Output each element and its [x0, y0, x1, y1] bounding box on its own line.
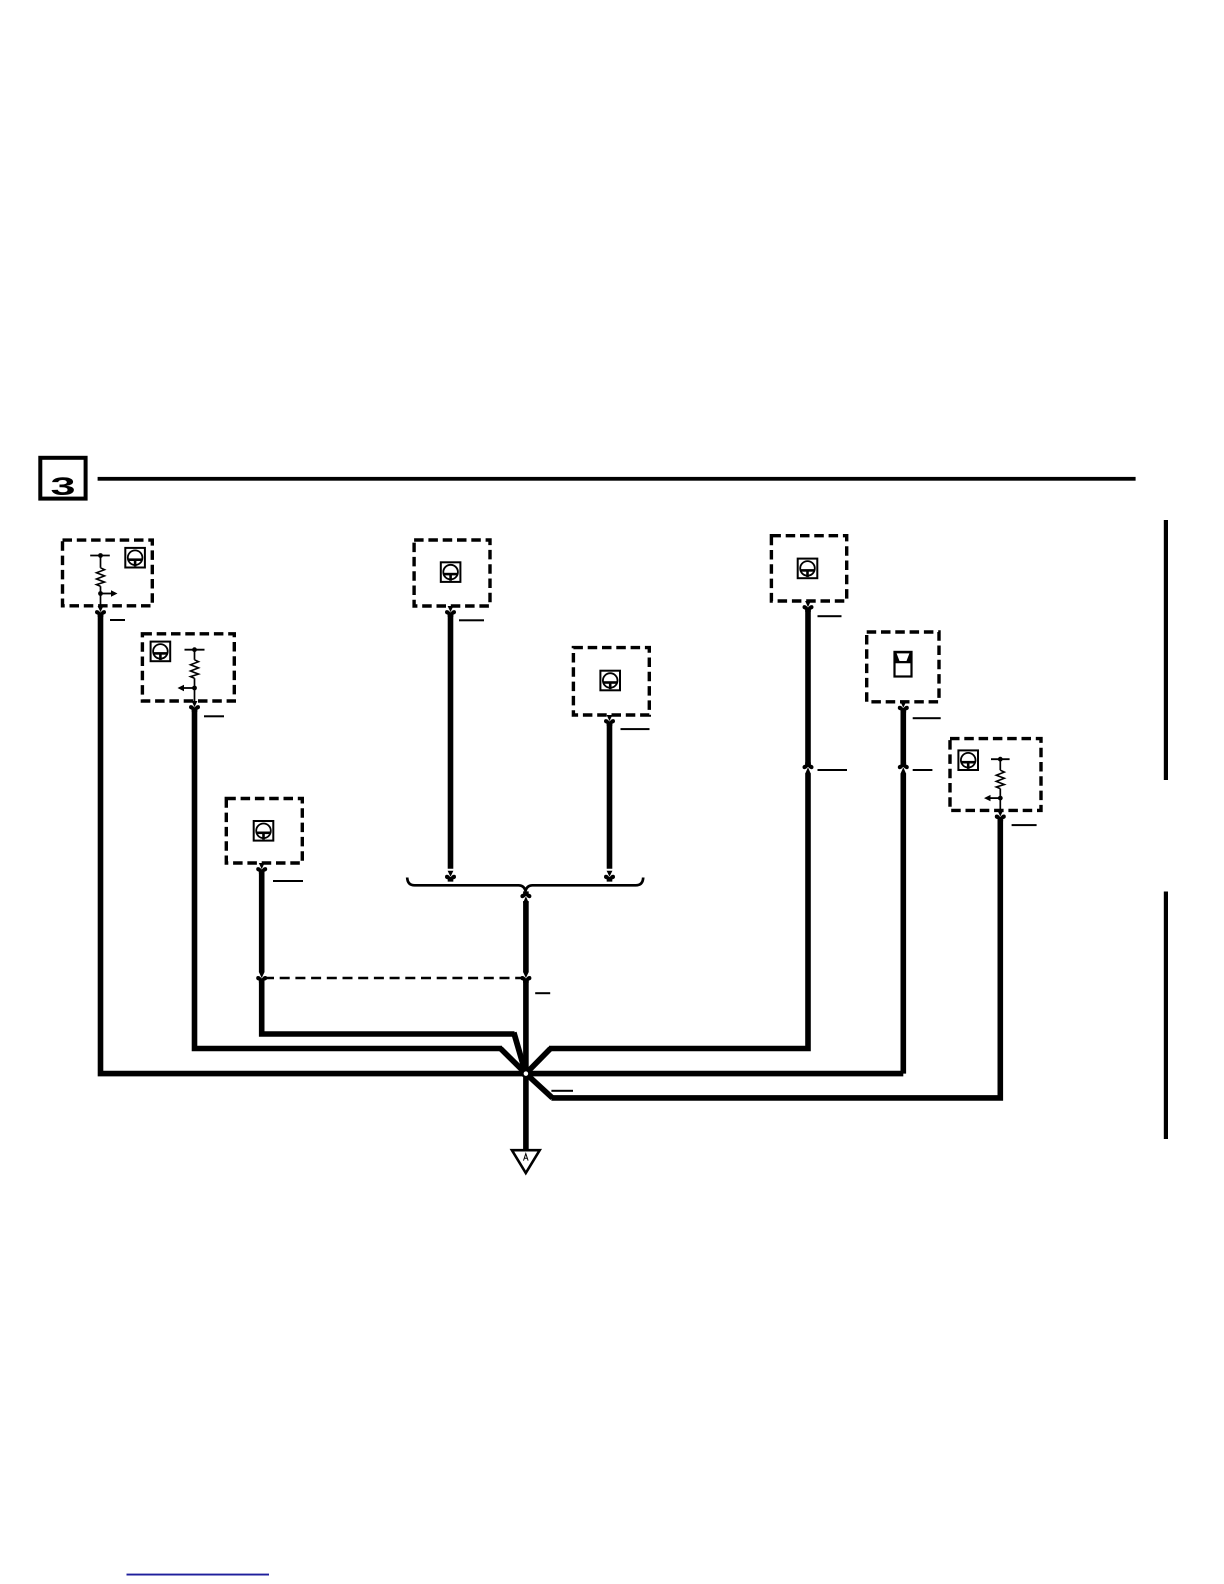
wire from K5 down to bus brace: [607, 723, 613, 869]
wire label line: [818, 769, 848, 771]
inline connector on K7 wire: [898, 762, 909, 774]
diagonal into junction from left upper horizontal: [501, 1049, 526, 1074]
wire label line: [913, 769, 933, 771]
component box K6 (top right, dashed): [771, 536, 846, 601]
junction node: [523, 1070, 530, 1077]
wire from dashed link down and right toward junction: [262, 980, 515, 1035]
bus brace (under-brace joining K4/K5 wires): [407, 878, 643, 891]
component box K4 (center left, dashed): [414, 540, 490, 606]
wire label line: [273, 880, 303, 882]
diagonal into junction from low horizontal: [526, 1074, 553, 1098]
dashed option line between K3 wire and center wire: [264, 977, 521, 979]
steep diagonal into junction: [514, 1033, 527, 1076]
wire from K4 down to bus brace: [448, 614, 454, 869]
connector arrow at brace left: [445, 871, 456, 882]
steering wheel icon in K6: [798, 559, 818, 579]
footer link rule: [127, 1574, 270, 1576]
connector arrow below K7: [898, 702, 909, 713]
wire from junction down to ground: [523, 1074, 529, 1150]
header rule: [98, 477, 1136, 481]
seat icon in K7: [895, 652, 912, 677]
ground symbol: [512, 1150, 540, 1173]
connector arrow on K3 wire at dashed link: [256, 972, 267, 983]
wire label line: [535, 992, 550, 994]
connector arrow below K8: [995, 810, 1006, 821]
connector arrow below K1: [95, 606, 106, 617]
right margin bar lower: [1164, 892, 1168, 1140]
wire label line: [913, 717, 941, 719]
center wire from dashed link to junction: [523, 980, 529, 1074]
steering wheel icon in K8: [958, 750, 978, 770]
diagonal into junction from right upper horizontal: [526, 1049, 551, 1074]
wire label line at junction: [551, 1090, 573, 1092]
resistor element in K8: [984, 757, 1010, 811]
connector arrow on center wire at dashed link: [520, 972, 531, 983]
resistor element in K2: [178, 647, 205, 701]
wire from K2 down and right toward junction: [195, 709, 503, 1049]
component box K5 (center, dashed): [573, 648, 649, 715]
wire label line: [459, 619, 484, 621]
wire from K6 down to connector: [805, 609, 811, 767]
header frame with page number 3: [40, 458, 85, 501]
component box K7 (seat module, dashed): [867, 632, 939, 702]
wire label line: [818, 615, 842, 617]
steering wheel icon in K5: [600, 671, 620, 691]
component box K3 (dashed): [226, 799, 302, 864]
connector arrow below K4: [445, 606, 456, 617]
wire from K7 connector down to through-horizontal: [900, 774, 906, 1074]
connector arrow below K6: [803, 601, 814, 612]
wire from K7 down to connector: [900, 709, 906, 766]
component box K1 (top left, dashed): [63, 540, 153, 606]
right margin bar upper: [1164, 520, 1168, 780]
connector arrow below K3: [256, 863, 267, 874]
steering wheel icon in K3: [254, 821, 274, 841]
steering wheel icon in K1: [125, 548, 145, 568]
connector arrow at brace right: [604, 871, 615, 882]
component box K2 (dashed): [142, 634, 234, 701]
wire from K1 down and right to ground junction: [101, 614, 904, 1074]
connector arrow below K5: [604, 715, 615, 726]
resistor element in K1: [90, 553, 117, 606]
component box K8 (bottom right, dashed): [950, 739, 1041, 811]
steering wheel icon in K4: [441, 562, 461, 582]
wire label line: [110, 619, 125, 621]
steering wheel icon in K2: [151, 642, 171, 662]
wire label line: [621, 728, 650, 730]
center wire from brace to dashed link: [523, 901, 529, 972]
wire label line: [1012, 824, 1037, 826]
inline connector on K6 wire: [803, 762, 814, 774]
svg-text:3: 3: [50, 473, 75, 501]
connector arrow below K2: [189, 701, 200, 712]
wire from K8 down and left to low horizontal: [551, 818, 1000, 1098]
wire label line: [204, 715, 224, 717]
wire from K6 connector down and left toward junction: [549, 774, 808, 1049]
wire from K3 down to dashed junction: [259, 871, 265, 973]
connector below brace (male pin up): [520, 891, 531, 903]
